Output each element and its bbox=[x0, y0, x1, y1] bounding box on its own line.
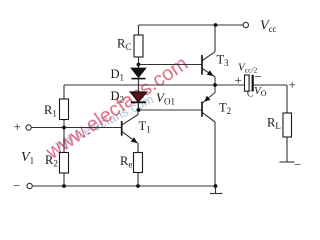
svg-text:C: C bbox=[247, 89, 253, 99]
svg-text:VO: VO bbox=[254, 85, 267, 98]
svg-text:Re: Re bbox=[120, 154, 132, 170]
svg-text:−: − bbox=[294, 157, 301, 172]
svg-text:Vcc: Vcc bbox=[260, 19, 277, 35]
svg-text:RC: RC bbox=[117, 37, 131, 53]
svg-text:D1: D1 bbox=[111, 67, 125, 83]
svg-text:+: + bbox=[14, 119, 21, 134]
svg-text:T1: T1 bbox=[139, 119, 151, 135]
svg-text:R1: R1 bbox=[44, 103, 57, 119]
svg-text:−: − bbox=[13, 178, 20, 193]
svg-text:VO1: VO1 bbox=[156, 90, 175, 107]
svg-text:RL: RL bbox=[267, 116, 281, 132]
svg-text:T2: T2 bbox=[219, 101, 231, 117]
svg-text:T3: T3 bbox=[217, 53, 230, 69]
svg-text:−: − bbox=[255, 69, 262, 84]
svg-text:V1: V1 bbox=[21, 150, 34, 166]
svg-text:+: + bbox=[235, 73, 242, 88]
svg-text:+: + bbox=[289, 77, 296, 92]
